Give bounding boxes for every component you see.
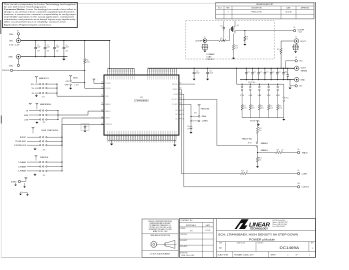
wire vout to feedback bank (236, 68, 238, 84)
svg-text:PHMODE: PHMODE (40, 157, 49, 159)
svg-text:2 PL DEC ±0.01 3 PL DEC ±0.00: 2 PL DEC ±0.01 3 PL DEC ±0.005 (149, 227, 172, 229)
Linear Technology logo (235, 219, 249, 229)
svg-text:however, it remains the custom: however, it remains the customer's respo… (4, 13, 76, 16)
svg-text:MARGINING: MARGINING (40, 103, 51, 106)
wire VO- to gnd rail (290, 85, 295, 87)
svg-text:2.5V - 5.5V: 2.5V - 5.5V (9, 44, 20, 46)
svg-text:Q1: Q1 (237, 25, 239, 27)
terminal J7 GND out (294, 77, 299, 82)
svg-text:BURST: BURST (20, 137, 27, 139)
svg-text:C7: C7 (87, 126, 89, 128)
frame zone tick left middle (0, 116, 2, 124)
size cage dwg row (225, 242, 227, 252)
terminal J3 VOUT (294, 39, 299, 44)
wire Q1 drain row to LDSTEP CLK (235, 30, 293, 32)
svg-text:40.2k: 40.2k (243, 107, 247, 109)
ground at R9 (243, 44, 246, 46)
svg-text:RUN: RUN (73, 77, 78, 79)
svg-text:JP1: JP1 (42, 97, 45, 99)
svg-text:VOUT SEL: VOUT SEL (250, 121, 261, 123)
svg-text:R12: R12 (277, 49, 280, 51)
U1 top pin group 1 (VIN pins) (107, 68, 109, 75)
capacitor C13 100uF (207, 68, 209, 72)
svg-text:22µF: 22µF (266, 72, 269, 74)
terminal E4 SGND (18, 180, 20, 182)
wire PLLLPF to freq sel (179, 103, 191, 105)
svg-text:C11: C11 (220, 25, 223, 27)
svg-text:C2: C2 (37, 45, 39, 47)
capacitor C26 output 22uF (283, 68, 285, 72)
op-amp U1 LTM4608AEV module body (104, 75, 179, 135)
ground at fb bank right (283, 118, 285, 119)
wire GND rail (21, 56, 68, 58)
svg-text:6-17-08: 6-17-08 (205, 230, 210, 232)
terminal J4 GND (16, 54, 21, 59)
power flag MARGIN (35, 76, 38, 77)
svg-text:R21: R21 (252, 105, 255, 107)
svg-text:LIGHT LOAD MODE: LIGHT LOAD MODE (41, 129, 59, 132)
wire SGND (21, 181, 26, 183)
wire margining bus (57, 111, 59, 120)
svg-text:JP3: JP3 (43, 122, 46, 124)
svg-text:40.2k: 40.2k (252, 107, 256, 109)
svg-text:affect circuit performance or: affect circuit performance or reliabilit… (4, 21, 66, 24)
title block frame (179, 219, 315, 258)
svg-text:100µF: 100µF (196, 73, 200, 75)
svg-text:RUN: RUN (105, 96, 108, 98)
svg-text:R15: R15 (277, 150, 280, 152)
capacitor C7 on COMP pin (81, 124, 89, 131)
svg-text:JP13: JP13 (248, 143, 252, 145)
wire TRACK net (179, 88, 181, 90)
svg-text:Customer Notice: Linear Techno: Customer Notice: Linear Technology has m… (4, 8, 77, 11)
svg-text:R6: R6 (86, 59, 88, 61)
disclaimer note box (3, 2, 78, 27)
svg-text:TECHNOLOGY: TECHNOLOGY (250, 228, 269, 230)
svg-text:FREQ SEL: FREQ SEL (201, 108, 210, 110)
ground at JP5 (34, 173, 36, 174)
capacitor C18 C19 C20 at LDSTEP (204, 43, 206, 45)
ground at fb bank center (257, 123, 259, 125)
svg-text:PGOOD: PGOOD (105, 88, 112, 90)
svg-text:J3: J3 (295, 36, 297, 38)
svg-text:VOUT SEL: VOUT SEL (248, 82, 256, 84)
terminal E10 CLKOUT (297, 186, 299, 188)
power flag MARGINING B (35, 103, 38, 104)
svg-text:22µF: 22µF (37, 47, 40, 49)
transistor Q1 nmos (229, 29, 231, 41)
drawing frame border (1, 2, 315, 4)
terminal E2 VIN- (17, 64, 19, 66)
terminal J1 VIN (16, 38, 21, 43)
wire track divider top (257, 118, 259, 127)
terminal E7 VO- (295, 85, 297, 87)
resistor R14 track bottom (257, 153, 259, 158)
svg-text:SCH, LTM4608AEV, HIGH DENSITY: SCH, LTM4608AEV, HIGH DENSITY 8A STEP-DO… (218, 233, 298, 237)
svg-text:E9: E9 (298, 170, 300, 172)
svg-text:ENABLE: ENABLE (261, 149, 269, 152)
terminal E3 PGOOD (10, 69, 12, 71)
svg-text:SGND: SGND (11, 181, 17, 183)
svg-text:E1: E1 (17, 31, 19, 33)
svg-text:R13: R13 (259, 128, 262, 130)
svg-text:22µF: 22µF (254, 72, 257, 74)
svg-text:VOSNS: VOSNS (105, 83, 110, 85)
svg-text:C4: C4 (56, 45, 58, 47)
svg-text:5%: 5% (32, 88, 35, 90)
svg-text:R24: R24 (279, 105, 282, 107)
svg-text:PGOOD: PGOOD (2, 70, 10, 72)
wire CLKOUT net (179, 93, 184, 95)
dashed box dynamic load circuit (186, 21, 274, 59)
svg-text:CLKIN: CLKIN (173, 94, 177, 96)
svg-text:1nF: 1nF (187, 128, 190, 130)
svg-text:22µF: 22µF (278, 72, 281, 74)
svg-text:10k: 10k (259, 130, 262, 132)
svg-text:POWER µModule: POWER µModule (249, 237, 275, 241)
svg-text:100µF: 100µF (209, 73, 213, 75)
svg-text:Applications Engineering for a: Applications Engineering for assistance. (4, 23, 53, 26)
ground at output rail (289, 86, 291, 88)
svg-text:VOUT: VOUT (300, 41, 306, 43)
svg-text:100k: 100k (86, 62, 90, 64)
svg-text:JP4: JP4 (43, 149, 46, 151)
resistor R10 0.02 sense (233, 34, 235, 45)
svg-text:06-17-08: 06-17-08 (285, 12, 291, 14)
power flag PHMODE (35, 156, 38, 157)
svg-text:22µF: 22µF (66, 47, 69, 49)
ground at JP4 (34, 148, 36, 149)
svg-text:40.2k: 40.2k (261, 107, 265, 109)
wire ENABLE net (179, 98, 217, 100)
svg-text:C5: C5 (66, 45, 68, 47)
svg-text:2MHz: 2MHz (202, 116, 207, 118)
resistor R15 0 ohm track (258, 152, 276, 154)
svg-text:ENABLE: ENABLE (261, 142, 269, 145)
resistor R20 fb 1.2V (241, 91, 243, 105)
svg-text:substitution and printed circu: substitution and printed circuit board l… (4, 18, 77, 21)
svg-text:C3: C3 (47, 45, 49, 47)
wire VO+ to VOUT rail (286, 60, 295, 62)
svg-text:SENSE: SENSE (301, 71, 308, 73)
svg-text:E5: E5 (294, 27, 296, 29)
svg-text:CHECKED: CHECKED (180, 234, 187, 236)
svg-text:1: 1 (309, 255, 310, 257)
svg-text:MODE: MODE (105, 118, 110, 120)
svg-text:0Ω: 0Ω (282, 150, 284, 152)
capacitor C10 pll filter (190, 125, 192, 128)
svg-text:1.5MHz: 1.5MHz (202, 121, 208, 123)
wire PGOOD (13, 69, 85, 71)
svg-text:R16: R16 (241, 171, 244, 173)
svg-text:10k: 10k (259, 160, 262, 162)
capacitor C11 gate (223, 21, 225, 25)
ground at SGND B (24, 183, 26, 186)
wire Q1 drain to top (234, 21, 236, 24)
svg-text:C13: C13 (209, 71, 212, 73)
svg-text:C12: C12 (196, 71, 199, 73)
svg-text:R9: R9 (246, 37, 248, 39)
svg-text:R7: R7 (221, 38, 223, 40)
U1 right lower pins (179, 109, 182, 111)
wire GND to VIN- (17, 59, 19, 64)
capacitor C22 output 22uF (258, 68, 260, 72)
capacitor C14 100uF 6.3V (287, 68, 289, 75)
svg-text:PHMODE: PHMODE (105, 124, 112, 126)
frame zone tick left upper (0, 20, 2, 34)
terminal E6 VO+ (295, 60, 297, 62)
svg-text:E8: E8 (298, 149, 300, 151)
resistor R7 gate (207, 40, 219, 42)
capacitor C3 22uF (44, 41, 46, 48)
svg-text:R20: R20 (243, 105, 246, 107)
svg-text:22µF: 22µF (56, 47, 59, 49)
svg-text:CLKOUT: CLKOUT (172, 99, 178, 101)
svg-text:22µF: 22µF (47, 47, 50, 49)
svg-text:1 - JP2: 1 - JP2 (74, 84, 79, 86)
power flag LIGHT LOAD (32, 127, 35, 128)
ground at input cap bank (63, 57, 65, 59)
terminal E8 TRACK (297, 151, 299, 153)
capacitor C12 100uF (193, 68, 195, 72)
terminal J5 LDSTEP input (203, 39, 207, 43)
svg-text:JP5: JP5 (43, 175, 46, 177)
svg-text:25V: 25V (66, 51, 68, 53)
ground at JP1 (35, 94, 37, 96)
ground at JP3 (36, 121, 38, 122)
svg-text:REV: REV (226, 8, 229, 10)
tolerance note box (142, 219, 178, 257)
svg-text:40.2k: 40.2k (270, 107, 274, 109)
capacitor C4 22uF (54, 41, 56, 48)
power flag SGND (24, 178, 27, 179)
svg-text:C10: C10 (187, 126, 190, 128)
U1 bottom pin row (GND pins) (107, 135, 109, 140)
svg-text:10%: 10% (31, 84, 35, 86)
power flag FREQ SEL (198, 105, 201, 106)
jumper JP11 3.3V (277, 84, 279, 86)
svg-text:LDSTEP: LDSTEP (195, 40, 203, 42)
capacitor C25 output 22uF (276, 68, 278, 72)
svg-text:CLKIN: CLKIN (302, 173, 308, 175)
svg-text:22µF: 22µF (285, 72, 288, 74)
svg-text:DESCRIPTION: DESCRIPTION (251, 8, 261, 10)
svg-text:0Ω: 0Ω (246, 171, 248, 173)
svg-text:DC1469A: DC1469A (280, 246, 300, 250)
wire feedback bank bottom rail (242, 117, 284, 119)
ground at LDSTEP caps (203, 51, 206, 53)
wire output GND rail (240, 79, 294, 81)
U1 left pins (101, 82, 104, 84)
svg-text:25V: 25V (37, 51, 39, 53)
wire phmode up to U1 (61, 125, 63, 163)
wire RUN to U1 (72, 82, 85, 84)
wire phmode bus to U1 PHMODE (61, 162, 63, 171)
revision history table (216, 3, 314, 19)
jumper JP8 1.5V (249, 84, 251, 86)
svg-text:LTM4608AEV: LTM4608AEV (134, 100, 149, 103)
wire VIN feed to U1 (109, 41, 111, 69)
jumper JP6 freq select (191, 115, 198, 117)
svg-text:3-PHASE: 3-PHASE (18, 165, 26, 168)
svg-text:OF: OF (296, 255, 298, 257)
wire to U1 VOSNS (94, 82, 104, 84)
resistor R6 100k pull-up (84, 41, 86, 59)
svg-text:E10: E10 (298, 183, 301, 185)
svg-text:J5: J5 (204, 37, 206, 39)
wire feedback bank top rail (237, 83, 284, 85)
wire VOUT pin bus / VOUT rail (148, 67, 292, 69)
ground at SGND D (27, 193, 29, 195)
resistor R23 fb 2.5V (268, 91, 270, 105)
svg-text:R22: R22 (261, 105, 264, 107)
resistor R21 fb 1.5V (249, 91, 251, 105)
svg-text:Fax: (408) 434-0507: Fax: (408) 434-0507 (273, 226, 286, 228)
jumper JP12 fb (283, 84, 285, 97)
svg-text:R14: R14 (259, 158, 262, 160)
third angle projection symbol (151, 242, 157, 248)
svg-text:25V: 25V (47, 51, 49, 53)
svg-text:TRACK: TRACK (302, 151, 309, 154)
power flag RUN pullup (69, 76, 72, 77)
svg-text:R23: R23 (270, 105, 273, 107)
svg-text:VIN-: VIN- (9, 65, 13, 67)
terminal J2 VIN+ (17, 33, 19, 35)
ground at R10 (232, 58, 235, 60)
svg-text:design a circuit that meets cu: design a circuit that meets customer-sup… (4, 10, 76, 13)
capacitor C23 output 22uF (264, 68, 266, 72)
svg-text:R10: R10 (235, 45, 238, 47)
terminal E5 LDSTEP CLK (293, 29, 295, 31)
jumper JP10 2.5V (268, 84, 270, 86)
capacitor C21 output 22uF (252, 68, 254, 72)
svg-text:22µF: 22µF (260, 72, 263, 74)
ground at U1 bottom right (174, 140, 176, 144)
svg-text:VO-: VO- (299, 86, 303, 88)
ground at VOUT jack caps (294, 51, 297, 53)
svg-text:for use with Linear Technology: for use with Linear Technology parts. (4, 5, 48, 8)
svg-text:2-PHASE: 2-PHASE (18, 161, 26, 164)
svg-text:GND: GND (8, 57, 13, 59)
svg-text:E6: E6 (295, 57, 297, 59)
svg-text:VO+: VO+ (299, 61, 303, 63)
svg-text:0.02: 0.02 (235, 47, 238, 49)
svg-text:PRODUCTION: PRODUCTION (251, 12, 261, 14)
title block left column (212, 219, 214, 258)
ground at C10 (190, 132, 193, 134)
terminal E9 CLKIN (297, 172, 299, 174)
wire GND pin bus (108, 139, 176, 141)
svg-text:4-PHASE: 4-PHASE (18, 170, 26, 173)
svg-text:1: 1 (288, 255, 289, 257)
ground at track divider (256, 166, 259, 168)
svg-text:CIRCUIT: CIRCUIT (207, 59, 215, 61)
svg-text:VOUT: VOUT (301, 68, 307, 70)
svg-text:SIZE: SIZE (219, 243, 222, 245)
wire VIN+ to VIN (17, 35, 19, 38)
svg-text:REVISION HISTORY: REVISION HISTORY (256, 4, 274, 6)
ground at JP2 (70, 86, 72, 88)
resistor R24 fb 3.3V (277, 91, 279, 105)
svg-text:and reliable operation in the: and reliable operation in the actual app… (4, 16, 75, 19)
svg-text:3%: 3% (32, 93, 35, 95)
resistor R22 fb 1.8V (258, 91, 260, 105)
svg-text:6.3V: 6.3V (284, 74, 287, 76)
wire VIN pin bus (108, 67, 135, 69)
ground at U1 bottom left (111, 140, 113, 143)
svg-text:DWG NO.: DWG NO. (258, 243, 265, 245)
svg-text:GND: GND (301, 80, 306, 82)
svg-text:PULSE-SKIP: PULSE-SKIP (15, 141, 26, 143)
wire vout rail to sense jack (292, 67, 295, 69)
svg-text:25V: 25V (56, 51, 58, 53)
wire VOUT jack to rail (281, 40, 294, 42)
jumper JP13 track/enable (256, 142, 258, 144)
svg-text:SHEET: SHEET (271, 255, 276, 257)
svg-text:VIN: VIN (9, 41, 13, 43)
svg-text:PGOOD: PGOOD (172, 84, 179, 86)
ground at SGND C (20, 192, 22, 194)
jumper JP9 1.8V (258, 84, 260, 86)
svg-text:CONTINUOUS: CONTINUOUS (14, 145, 27, 147)
svg-text:22µF: 22µF (247, 72, 250, 74)
svg-text:JP12: JP12 (285, 97, 288, 99)
wire light-load bus to U1 MODE (61, 118, 63, 137)
wire VIN rail (21, 40, 110, 42)
capacitor C5 22uF (63, 41, 65, 48)
U1 top pin group 2 (VOUT pins) (147, 68, 149, 75)
power flag MARGINING A (29, 103, 32, 104)
svg-text:This circuit is proprietary to: This circuit is proprietary to Linear Te… (4, 3, 77, 6)
svg-text:40.2k: 40.2k (279, 107, 283, 109)
svg-text:CLKOUT: CLKOUT (302, 187, 310, 189)
svg-text:MARGIN %: MARGIN % (39, 77, 49, 80)
svg-text:Phone: (408) 432-1900: Phone: (408) 432-1900 (273, 224, 288, 226)
resistor R16 0 ohm clkin (240, 172, 247, 174)
terminal J6 VOUT SENSE (294, 66, 299, 71)
svg-text:REV: REV (311, 243, 314, 245)
capacitor C20 output 22uF (245, 68, 247, 72)
wire margin bus (56, 84, 58, 96)
ground symbol at U1 pin A3 (92, 79, 95, 80)
resistor R12 1 (280, 48, 282, 54)
svg-text:NOM: NOM (24, 115, 29, 117)
jumper JP7 1.2V (241, 84, 243, 86)
resistor R9 1k (244, 31, 246, 37)
capacitor C24 output 22uF (270, 68, 272, 72)
svg-text:LOW: LOW (24, 119, 28, 121)
capacitor C2 22uF (35, 41, 37, 48)
resistor R13 track top (256, 127, 258, 134)
svg-text:UNLESS OTHERWISE SPECIFIED: UNLESS OTHERWISE SPECIFIED (148, 221, 173, 223)
svg-text:22µF: 22µF (272, 72, 275, 74)
wire PGOOD2 stub (179, 83, 195, 85)
ground at SGND A (15, 183, 17, 185)
svg-text:PLLLPF: PLLLPF (172, 104, 178, 106)
capacitor C15 C16 C17 at VOUT jack (296, 43, 298, 45)
svg-text:TRACK SEL: TRACK SEL (242, 137, 253, 140)
svg-text:JP6: JP6 (194, 112, 197, 114)
